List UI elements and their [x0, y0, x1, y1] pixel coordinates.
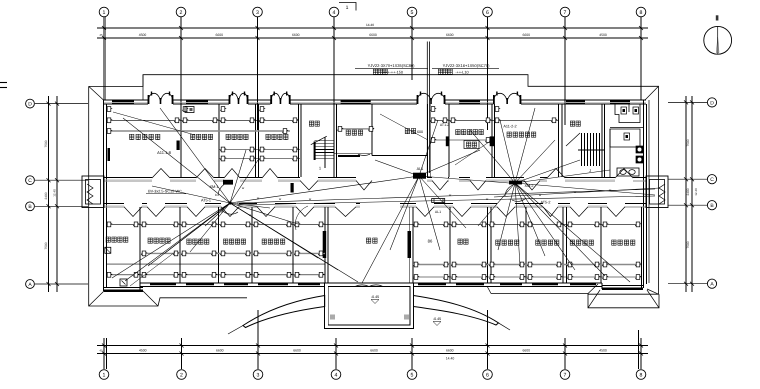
hall east door leaf (thick) [408, 231, 412, 258]
panel in computer room west [446, 136, 450, 146]
staircase 1 treads [314, 137, 333, 168]
svg-text:-0.45: -0.45 [371, 295, 379, 299]
svg-text:7: 7 [564, 10, 567, 16]
svg-text:-0.45: -0.45 [433, 317, 441, 321]
exterior right wall (axis 8) [643, 100, 645, 288]
svg-text:12.40: 12.40 [53, 189, 57, 197]
svg-text:4: 4 [335, 372, 338, 378]
staircase 1 stringer (thick) [314, 142, 316, 161]
corridor north wall (axis C) [104, 177, 646, 181]
svg-text:6600: 6600 [293, 349, 301, 353]
west corridor end bay [82, 176, 104, 208]
feeder riser wire (double line) [426, 42, 428, 174]
canopy swoosh west [243, 296, 325, 328]
svg-text:5: 5 [411, 10, 414, 16]
circuit line north rooms (sockets at working height) [107, 119, 298, 121]
svg-text:4500: 4500 [599, 33, 607, 37]
svg-text:6600: 6600 [446, 349, 454, 353]
socket symbols south rooms [106, 222, 112, 227]
wall-mounted panel on partition axis2 [177, 141, 180, 151]
row grid bubbles D C B A (left) [26, 99, 35, 108]
distribution panel AL1 riser target [413, 173, 426, 179]
dimension lines (bottom) [97, 346, 648, 354]
staircase 2 treads [578, 133, 605, 166]
east corridor end bay [646, 176, 668, 208]
distribution panel XM-2 [509, 181, 522, 185]
svg-text:2400: 2400 [44, 192, 48, 199]
svg-text:7500: 7500 [44, 242, 48, 249]
roof eave outline [89, 75, 659, 295]
water heater symbols [636, 146, 643, 153]
hall south wall [372, 154, 427, 156]
svg-text:J: J [589, 168, 591, 173]
svg-text:12.40: 12.40 [694, 188, 698, 196]
doors swinging down into corridor [300, 181, 318, 191]
toilet partition wall [609, 129, 611, 177]
toilet fixtures [621, 107, 627, 114]
svg-text:4500: 4500 [599, 349, 607, 353]
svg-text:6600: 6600 [446, 33, 454, 37]
left protruding room bottom wall [104, 290, 143, 292]
svg-text:A11.1-8: A11.1-8 [157, 150, 171, 155]
distribution panel XM-1 (corridor north wall) [223, 180, 233, 185]
wire knot at hub XM-1 [228, 201, 231, 204]
room labels (south rooms) [106, 237, 110, 242]
toilet stalls [615, 105, 640, 123]
svg-text:D: D [28, 102, 32, 108]
wire fan-out from panel XM-2 [470, 130, 515, 183]
node grid bubbles 1-8 (top) [99, 7, 109, 17]
svg-text:6600: 6600 [369, 33, 377, 37]
node grid column lines (top) [104, 17, 641, 152]
svg-text:a: a [249, 213, 251, 217]
svg-text:4: 4 [221, 210, 223, 214]
wall-mounted panel north room1 [108, 148, 111, 161]
svg-text:AT1-2: AT1-2 [440, 123, 449, 127]
panel AL1 symbol in south room [432, 199, 445, 203]
node grid column lines (bottom) [104, 310, 641, 369]
svg-text:YJV22-3X70+1X35(SC80): YJV22-3X70+1X35(SC80) [368, 63, 415, 68]
wire knot at hub XM-2 [514, 182, 517, 185]
reception counter window [338, 155, 360, 157]
double-leaf entry doors on top wall [148, 93, 173, 103]
svg-text:2400: 2400 [686, 188, 690, 195]
svg-text:6600: 6600 [522, 33, 530, 37]
svg-text:C: C [28, 178, 32, 184]
canopy swoosh east [414, 296, 499, 326]
circuit lines north rooms 3-5 [219, 149, 300, 151]
doors swinging up into north rooms [152, 169, 170, 179]
exterior bottom wall (axis A) with windows [104, 283, 643, 291]
svg-text:3: 3 [257, 372, 260, 378]
staircase 1 up-arrow line [311, 136, 327, 145]
dashed circuit arc near hub1 [295, 206, 308, 230]
washbasin counter [617, 168, 639, 176]
svg-text:7500: 7500 [44, 140, 48, 147]
circuit line north room 1 (heavy) [107, 130, 290, 132]
conduit arcs at XM-1 [218, 182, 232, 196]
entrance hall projecting walls [325, 283, 414, 329]
reception door into lobby [358, 154, 370, 155]
boxed label in computer room [464, 141, 479, 149]
partition walls north rooms [181, 104, 605, 177]
svg-text:1: 1 [103, 372, 106, 378]
switch box room1 lower left [120, 279, 127, 286]
wire fan-out from riser panel AL1 [230, 176, 419, 203]
svg-text:3: 3 [256, 10, 259, 16]
svg-text:BV-3x2.5-SC15-WC: BV-3x2.5-SC15-WC [148, 190, 182, 194]
circuit line south rooms upper [107, 223, 640, 225]
svg-text:1: 1 [346, 5, 349, 11]
svg-text:14.40: 14.40 [366, 23, 374, 27]
svg-text:AL1: AL1 [435, 210, 441, 214]
windows on top wall (thick bars) [112, 100, 134, 102]
svg-text:4: 4 [333, 10, 336, 16]
right protruding room bottom wall [602, 288, 643, 290]
wire fan-out from panel XM-1 [112, 203, 230, 278]
svg-text:6600: 6600 [292, 33, 300, 37]
svg-text:6600: 6600 [215, 33, 223, 37]
branch wire reception to hall [380, 114, 428, 140]
svg-text:YJV22-3X16+1X50(SC70): YJV22-3X16+1X50(SC70) [443, 63, 490, 68]
svg-text:86: 86 [428, 239, 433, 244]
svg-text:14.40: 14.40 [446, 357, 455, 361]
svg-text:b: b [215, 193, 217, 197]
svg-text:4500: 4500 [139, 33, 147, 37]
svg-text:6: 6 [486, 10, 489, 16]
windows on bottom wall (thick bars) [150, 283, 176, 285]
node grid bubbles 1-8 (bottom) [99, 370, 109, 380]
right block outer eave [588, 294, 659, 308]
vertical dimension lines (right) [686, 96, 692, 292]
svg-text:5: 5 [411, 372, 414, 378]
dimension lines (top) [97, 28, 648, 38]
reception room south wall [334, 153, 372, 155]
room labels (north rooms) [130, 134, 134, 139]
section mark 1 near axis 4 [339, 3, 356, 11]
svg-text:6600: 6600 [370, 349, 378, 353]
eave inner line right [648, 100, 650, 283]
svg-text:XM-1: XM-1 [209, 185, 218, 189]
svg-text:7500: 7500 [686, 241, 690, 248]
svg-text:6600: 6600 [216, 349, 224, 353]
box symbol bottom room1 [105, 247, 111, 253]
svg-text:7500: 7500 [686, 139, 690, 146]
entrance door [355, 285, 383, 286]
svg-text:8: 8 [640, 10, 643, 16]
svg-text:6600: 6600 [522, 349, 530, 353]
svg-text:-++-L10: -++-L10 [455, 70, 468, 74]
svg-text:6: 6 [486, 372, 489, 378]
svg-text:D: D [710, 100, 714, 106]
left edge tick marks [0, 82, 7, 84]
eave corner diagonals [89, 86, 104, 100]
circuit line south rooms mid (heavy) [140, 252, 325, 254]
exterior left wall (axis 1) [104, 100, 647, 291]
svg-text:45: 45 [99, 33, 103, 37]
svg-text:XM-2: XM-2 [524, 184, 533, 188]
svg-text:A11-2-2: A11-2-2 [503, 125, 516, 129]
svg-text:AT5-1: AT5-1 [201, 199, 211, 203]
vertical dimension lines (left) [49, 96, 58, 292]
long corridor circuit wire [237, 189, 655, 203]
svg-text:7: 7 [564, 372, 567, 378]
svg-text:1: 1 [103, 10, 106, 16]
canopy ramp lines [228, 326, 243, 335]
svg-text:4500: 4500 [139, 349, 147, 353]
branch wires in north room1 [113, 112, 195, 135]
partition walls south rooms [140, 207, 642, 291]
hall west door leaf (thick) [323, 231, 327, 258]
svg-text:8: 8 [640, 372, 643, 378]
corridor south wall (axis B) [104, 204, 646, 207]
svg-text:2: 2 [180, 10, 183, 16]
panel in computer room east [490, 136, 495, 146]
svg-text:2: 2 [180, 372, 183, 378]
socket symbols north rooms [106, 118, 112, 123]
row grid bubbles D C B A (right) [707, 98, 716, 107]
north arrow compass [704, 26, 732, 54]
conduit arcs at XM-2 [505, 184, 517, 196]
exterior top wall (axis D) with door/window openings [104, 100, 646, 104]
circuit line south rooms lower [107, 263, 325, 265]
svg-text:AL1: AL1 [417, 167, 424, 171]
small device top room1 [185, 107, 194, 113]
svg-text:AT5-2: AT5-2 [540, 201, 550, 205]
svg-text:45: 45 [99, 349, 103, 353]
doors swinging down into south rooms [124, 207, 142, 217]
svg-text:600: 600 [417, 130, 423, 134]
circuit line reception room [338, 128, 374, 130]
svg-text:C: C [710, 177, 714, 183]
porch corner pads [330, 315, 335, 320]
